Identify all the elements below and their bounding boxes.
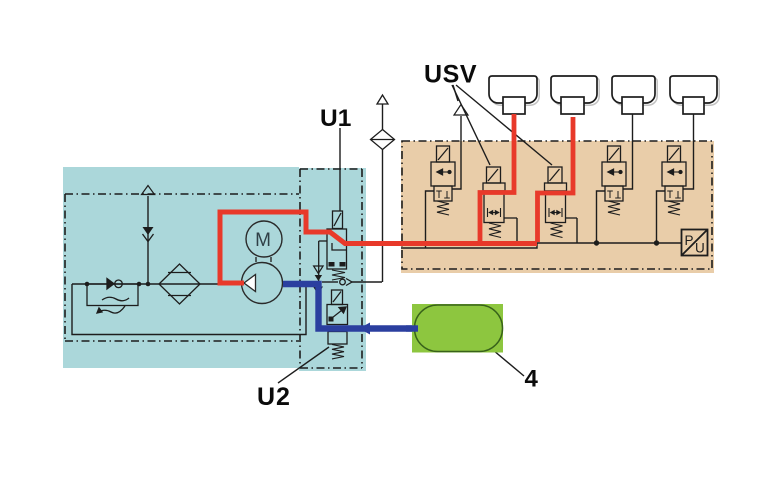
svg-text:M: M <box>255 230 271 251</box>
svg-text:U1: U1 <box>320 105 351 132</box>
svg-text:U: U <box>695 241 705 256</box>
svg-text:U2: U2 <box>257 383 291 411</box>
svg-text:4: 4 <box>525 366 539 393</box>
svg-text:USV: USV <box>424 61 477 89</box>
svg-text:P: P <box>685 233 694 248</box>
